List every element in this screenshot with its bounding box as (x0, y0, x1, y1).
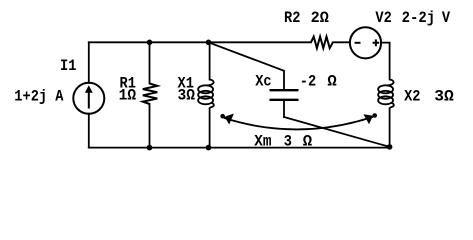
svg-text:R2: R2 (284, 9, 300, 27)
inductor X1 (198, 80, 214, 109)
wire top right segment R2 to V2 (333, 41, 350, 43)
wire V2 to top-right corner and down (381, 43, 390, 80)
svg-text:3: 3 (284, 133, 292, 151)
svg-text:Xm: Xm (254, 133, 272, 151)
resistor R1 (143, 84, 158, 105)
mutual coupling arc Xm (224, 117, 373, 130)
svg-text:3Ω: 3Ω (178, 87, 196, 105)
svg-text:Ω: Ω (303, 133, 313, 151)
svg-text:1Ω: 1Ω (119, 87, 137, 105)
node junction bottom X1 (206, 145, 212, 151)
svg-text:3Ω: 3Ω (434, 88, 454, 106)
wire R1 branch upper (149, 42, 151, 83)
svg-text:V: V (442, 9, 451, 27)
svg-text:Ω: Ω (327, 72, 337, 90)
svg-text:X2: X2 (404, 88, 420, 106)
node junction top X1 (206, 40, 212, 46)
capacitor Xc (270, 90, 299, 100)
wire bottom horizontal (89, 147, 390, 149)
node junction bottom R1 (147, 145, 153, 151)
node junction top R1 (147, 40, 153, 46)
wire X2 branch lower (389, 109, 391, 147)
wire X1 branch upper (209, 42, 211, 79)
resistor R2 (311, 37, 333, 49)
wire diagonal node to capacitor top (209, 42, 285, 89)
wire left vertical upper (88, 42, 90, 83)
inductor X2 (378, 80, 394, 109)
right arrowhead with dot (372, 113, 377, 118)
svg-text:2Ω: 2Ω (311, 9, 330, 27)
current source I1 (73, 83, 104, 114)
wire left vertical lower (88, 114, 90, 148)
svg-text:-2: -2 (300, 72, 316, 90)
wire X1 branch lower (209, 109, 211, 148)
svg-text:1+2j A: 1+2j A (14, 87, 64, 105)
wire top left horizontal (89, 41, 311, 43)
node junction bottom right (387, 144, 393, 150)
wire capacitor bottom lead (283, 101, 285, 117)
wire R1 branch lower (149, 104, 151, 148)
svg-text:2-2j: 2-2j (402, 9, 436, 27)
left arrowhead with dot (220, 114, 225, 119)
voltage source V2 (350, 27, 381, 58)
wire diagonal capacitor to bottom right node (284, 117, 390, 147)
svg-text:I1: I1 (60, 57, 76, 75)
svg-text:Xc: Xc (255, 72, 271, 90)
svg-text:V2: V2 (375, 9, 391, 27)
